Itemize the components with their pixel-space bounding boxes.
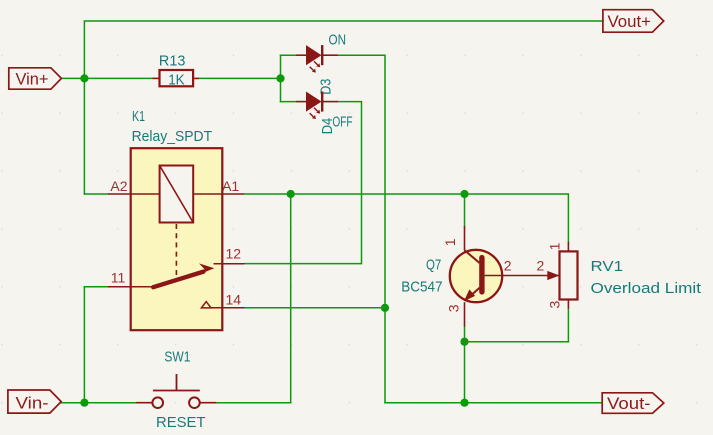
svg-text:1K: 1K: [168, 72, 185, 89]
svg-text:BC547: BC547: [401, 278, 442, 295]
hier label Vout-: [602, 393, 664, 414]
svg-text:Vin-: Vin-: [16, 393, 49, 412]
svg-text:RV1: RV1: [591, 258, 624, 275]
wire R13 to LED split: [199, 77, 281, 79]
svg-text:Vin+: Vin+: [16, 69, 49, 88]
junction bottom rail: [460, 399, 468, 407]
wire Vin+ to R13: [84, 77, 152, 79]
wire D4 anode: [281, 101, 297, 103]
junction Vin+: [80, 74, 88, 82]
junction Vin-: [80, 399, 88, 407]
switch SW1: [136, 349, 216, 432]
svg-text:SW1: SW1: [164, 349, 190, 366]
svg-text:D3: D3: [318, 79, 335, 95]
svg-text:A2: A2: [110, 178, 127, 194]
resistor R13: [153, 52, 199, 88]
svg-text:K1: K1: [132, 108, 145, 125]
svg-text:Vout+: Vout+: [608, 12, 652, 31]
wire Vin+ stub: [61, 77, 84, 79]
pin 1: [567, 242, 569, 252]
wire Vin- row: [61, 402, 136, 404]
junction LED split: [276, 74, 284, 82]
svg-text:14: 14: [226, 292, 242, 308]
hier label Vin+: [9, 68, 62, 89]
wire Vin- column: [83, 287, 85, 403]
wire pin11 row: [84, 286, 108, 288]
wire bottom rail to Vout-: [385, 402, 602, 404]
wire D3 anode: [281, 54, 297, 56]
LED D4: [296, 92, 352, 135]
svg-text:RESET: RESET: [156, 414, 206, 431]
svg-text:1: 1: [546, 242, 562, 250]
wiper arrow: [547, 271, 559, 280]
relay pin14 contact triangle: [201, 302, 211, 308]
pin A2: [108, 193, 131, 195]
hier label Vin-: [8, 390, 61, 413]
svg-text:12: 12: [226, 246, 242, 262]
relay coil: [160, 166, 194, 223]
pin A1: [222, 193, 244, 195]
pin 14: [211, 307, 245, 309]
wire D3 cathode to right column: [338, 55, 385, 403]
svg-text:A1: A1: [222, 178, 239, 194]
potentiometer RV1: [537, 242, 702, 309]
svg-text:2: 2: [504, 258, 512, 274]
pin 12: [214, 263, 245, 265]
base pin: [485, 275, 560, 277]
wire A1 column down: [290, 194, 292, 403]
relay armature: [153, 272, 203, 288]
junction emitter: [460, 338, 468, 346]
wire D4 cathode to pin12: [244, 102, 361, 264]
hier label Vout+: [603, 10, 664, 33]
relay K1: [108, 108, 245, 330]
wire A2 row: [84, 193, 108, 195]
junction A1: [287, 190, 295, 198]
collector pin: [464, 226, 466, 251]
svg-text:3: 3: [546, 301, 562, 309]
relay dashed link: [175, 224, 177, 277]
svg-text:2: 2: [537, 258, 545, 274]
base bar: [479, 255, 484, 295]
svg-text:ON: ON: [329, 32, 347, 49]
svg-text:Overload Limit: Overload Limit: [591, 280, 702, 297]
svg-text:1: 1: [442, 238, 458, 246]
svg-text:Relay_SPDT: Relay_SPDT: [132, 128, 213, 145]
wire emitter row: [465, 341, 569, 343]
wire pin14 row: [245, 307, 385, 309]
wire SW1 to column: [216, 402, 290, 404]
svg-text:3: 3: [446, 304, 462, 312]
wire RV1 bottom: [567, 309, 569, 342]
junction pin14: [381, 304, 389, 312]
svg-text:Vout-: Vout-: [607, 394, 651, 413]
transistor Q7: [401, 226, 559, 327]
svg-text:D4: D4: [319, 118, 336, 135]
svg-text:R13: R13: [159, 52, 186, 69]
wire Q7 collector: [464, 194, 466, 226]
wire top rail: [84, 21, 603, 194]
pin 11: [108, 286, 153, 288]
emitter pin: [465, 288, 480, 301]
wire LED split column: [280, 55, 282, 101]
svg-text:11: 11: [111, 270, 126, 286]
wire Q7 emitter down: [464, 327, 466, 403]
svg-text:Q7: Q7: [426, 257, 441, 274]
wire A1 row: [244, 194, 569, 242]
junction collector: [460, 190, 468, 198]
LED D3: [296, 32, 346, 95]
pin 3: [567, 300, 569, 309]
